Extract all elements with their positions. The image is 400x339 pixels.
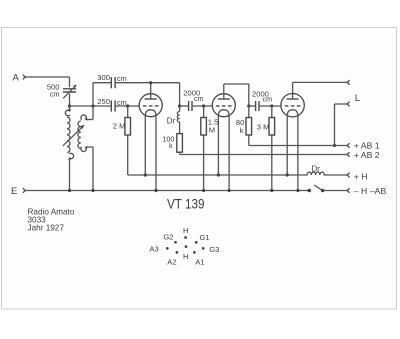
socket pinout <box>149 226 219 266</box>
capacitor C3 250cm <box>97 97 126 112</box>
tube V2 <box>212 84 235 191</box>
svg-text:A2: A2 <box>167 258 176 267</box>
svg-text:k: k <box>169 141 173 150</box>
svg-text:+ AB 2: + AB 2 <box>354 150 380 160</box>
tube V1 <box>139 83 162 191</box>
node R5 top junction <box>270 104 273 107</box>
inductor Dr2 choke <box>304 164 347 175</box>
coil L1 antenna <box>65 106 73 191</box>
node grid1 junction <box>68 104 71 107</box>
svg-text:A1: A1 <box>195 258 204 267</box>
wire anode3 to phone terminal <box>293 81 347 83</box>
svg-text:cm: cm <box>50 89 60 98</box>
switch S1 <box>307 185 346 192</box>
svg-text:2 M: 2 M <box>113 121 126 130</box>
svg-text:k: k <box>240 126 244 135</box>
svg-text:VT 139: VT 139 <box>167 196 205 212</box>
resistor R5 3M <box>257 106 275 191</box>
node filament dots H rail <box>144 173 147 176</box>
wire A to C1 <box>26 76 70 78</box>
svg-text:– H –AB: – H –AB <box>354 186 387 196</box>
svg-text:Dr: Dr <box>312 164 321 173</box>
node coupling1 junction <box>178 104 181 107</box>
wire anode1 down <box>179 83 181 112</box>
svg-text:cm: cm <box>117 74 127 83</box>
node E terminal <box>11 186 26 197</box>
phone terminal <box>347 80 350 85</box>
wire E rail <box>26 190 309 192</box>
svg-text:Dr: Dr <box>167 117 176 126</box>
wire feedback vertical <box>93 83 111 120</box>
terminal +H <box>347 171 368 181</box>
terminal +AB2 <box>347 150 380 160</box>
node R3 top junction <box>202 104 205 107</box>
wire anode row stage1 <box>115 82 180 84</box>
svg-text:300: 300 <box>97 73 110 82</box>
svg-text:M: M <box>209 125 215 134</box>
svg-text:A3: A3 <box>149 245 158 254</box>
svg-text:A: A <box>13 73 20 84</box>
variometer arrow <box>63 125 85 146</box>
node anode1 junction <box>149 81 152 84</box>
tube V3 <box>281 82 304 190</box>
wire +H rail <box>128 174 304 176</box>
wire +AB2 rail <box>180 154 347 156</box>
terminal -H-AB <box>347 186 387 196</box>
wire grid row stage1 <box>70 105 112 107</box>
svg-text:cm: cm <box>194 94 204 103</box>
node A terminal <box>13 73 27 84</box>
wire anode2 to corner <box>224 84 249 106</box>
capacitor C4 2000cm <box>180 88 213 111</box>
node R1 top junction <box>126 104 129 107</box>
capacitor C2 300cm <box>97 73 126 89</box>
svg-text:G1: G1 <box>200 233 210 242</box>
wire C3 to tube1 grid <box>115 105 139 107</box>
svg-text:L: L <box>355 93 360 104</box>
svg-text:+ AB 1: + AB 1 <box>354 140 380 150</box>
node E rail junctions <box>68 189 71 192</box>
svg-text:Jahr 1927: Jahr 1927 <box>28 224 65 233</box>
svg-text:250: 250 <box>97 97 110 106</box>
svg-text:H: H <box>183 226 188 235</box>
resistor R1 2M <box>113 106 131 175</box>
node coupling2 junction <box>247 104 250 107</box>
L terminal <box>347 102 350 107</box>
capacitor C1 500cm variable <box>47 77 77 106</box>
resistor R2 100k <box>162 122 182 155</box>
resistor R4 80k <box>236 106 252 146</box>
inductor Dr1 choke <box>167 112 180 126</box>
node L-AB1 junction <box>333 144 336 147</box>
svg-text:E: E <box>11 186 17 197</box>
svg-text:G2: G2 <box>163 233 173 242</box>
svg-text:H: H <box>183 252 188 261</box>
wire L to AB1 <box>335 104 347 146</box>
svg-text:G3: G3 <box>209 245 219 254</box>
resistor R3 1.5M <box>201 106 219 191</box>
info text <box>28 207 75 232</box>
svg-text:3 M: 3 M <box>257 123 270 132</box>
svg-text:cm: cm <box>263 94 273 103</box>
terminal +AB1 <box>347 140 380 150</box>
capacitor C5 2000cm <box>249 89 281 111</box>
coil L2 grid <box>78 115 93 191</box>
node junction coil tap <box>91 104 94 107</box>
wire +AB1 rail <box>249 145 347 147</box>
svg-text:+ H: + H <box>354 171 368 181</box>
